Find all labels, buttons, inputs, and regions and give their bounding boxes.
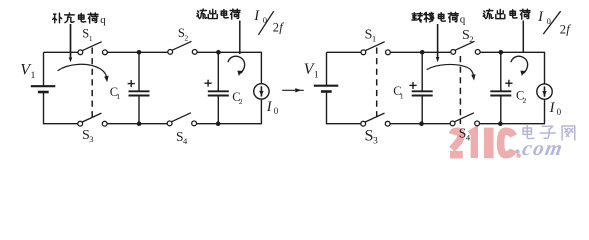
junction C1 top <box>137 50 142 55</box>
junction C1 bottom <box>137 121 142 126</box>
dashed charge-path line right q path 2 <box>459 56 461 124</box>
capacitor C1 right <box>412 52 433 123</box>
svg-text:1: 1 <box>314 69 319 80</box>
svg-text:2: 2 <box>239 97 243 106</box>
svg-text:2: 2 <box>523 96 527 105</box>
arrow between circuits <box>282 88 304 92</box>
svg-text:2: 2 <box>469 34 473 44</box>
charge transfer arc right <box>427 64 476 80</box>
wire bottom rail seg2 L <box>107 123 167 125</box>
label I0/2f right <box>537 9 571 36</box>
svg-text:1: 1 <box>89 34 93 43</box>
battery V1 left <box>31 52 56 123</box>
outflow curl arrow right <box>511 56 528 76</box>
switch S1 right <box>361 42 390 55</box>
leader from 转移电荷q <box>436 24 440 62</box>
wire top rail seg3 R <box>479 51 545 53</box>
svg-text:1: 1 <box>372 34 376 44</box>
junction C2 bottom <box>216 121 221 126</box>
wire top rail seg3 L <box>196 51 262 53</box>
wire bottom rail seg3 R <box>480 123 546 125</box>
polarity + C2 right <box>505 80 512 87</box>
wire bottom rail seg3 L <box>197 123 263 125</box>
text label 转移电荷 <box>412 12 458 22</box>
switch S3 right <box>361 113 390 126</box>
svg-text:1: 1 <box>400 91 404 100</box>
junction C2 top <box>216 50 221 55</box>
outflow curl arrow left <box>228 56 245 76</box>
polarity + C1 <box>128 80 135 87</box>
switch S2 <box>168 41 197 54</box>
watermark logo 21IC <box>450 128 513 159</box>
switch S4 <box>167 113 196 126</box>
polarity + C2 <box>205 80 212 87</box>
wire bottom rail seg2 R <box>390 123 450 125</box>
wire top rail seg1 L <box>44 51 79 53</box>
wire top rail seg1 R <box>327 51 362 53</box>
wire top rail seg2 L <box>107 51 168 53</box>
polarity + C1 right <box>409 82 416 89</box>
battery V1 right <box>314 52 339 123</box>
junction C1R bottom <box>419 121 424 126</box>
svg-text:2: 2 <box>273 21 279 35</box>
svg-text:0: 0 <box>274 106 279 116</box>
capacitor C2 <box>208 52 229 123</box>
switch S2 right <box>451 41 480 54</box>
current source I0 right <box>537 52 552 123</box>
current source I0 left <box>254 52 269 123</box>
svg-text:3: 3 <box>89 134 93 144</box>
label I0/2f left <box>253 8 284 34</box>
svg-text:0: 0 <box>557 107 562 117</box>
svg-text:1: 1 <box>116 92 120 101</box>
svg-text:3: 3 <box>373 136 378 147</box>
wire top rail seg2 R <box>390 51 451 53</box>
svg-text:2: 2 <box>184 33 188 42</box>
leader from 流出电荷 right <box>522 21 524 53</box>
junction C1R top <box>420 50 425 55</box>
dashed charge-path line right q path 1 <box>376 48 378 122</box>
charge transfer arc left <box>58 64 109 82</box>
junction C2R top <box>499 50 504 55</box>
leader from 补充电荷q <box>69 24 73 62</box>
dashed charge-path line left q path <box>91 48 93 122</box>
wire bottom rail seg1 L <box>43 123 78 125</box>
switch S1 <box>78 42 107 55</box>
svg-text:1: 1 <box>31 70 36 81</box>
leader from 流出电荷 left <box>239 21 241 55</box>
watermark .com <box>515 149 519 153</box>
text label watermark 电子网 <box>523 126 575 140</box>
text label 流出电荷 right <box>483 9 530 19</box>
switch S3 <box>78 113 107 126</box>
switch S4 right <box>450 113 479 126</box>
svg-text:com: com <box>520 136 565 160</box>
wire bottom rail seg1 R <box>326 123 361 125</box>
svg-text:q: q <box>460 13 466 25</box>
text label 流出电荷 left <box>197 9 240 19</box>
svg-text:q: q <box>100 14 106 26</box>
junction C2R bottom <box>498 121 503 126</box>
text label 补充电荷 <box>53 13 98 23</box>
svg-text:2: 2 <box>560 22 566 36</box>
capacitor C1 <box>129 52 150 123</box>
capacitor C2 right <box>490 52 511 123</box>
